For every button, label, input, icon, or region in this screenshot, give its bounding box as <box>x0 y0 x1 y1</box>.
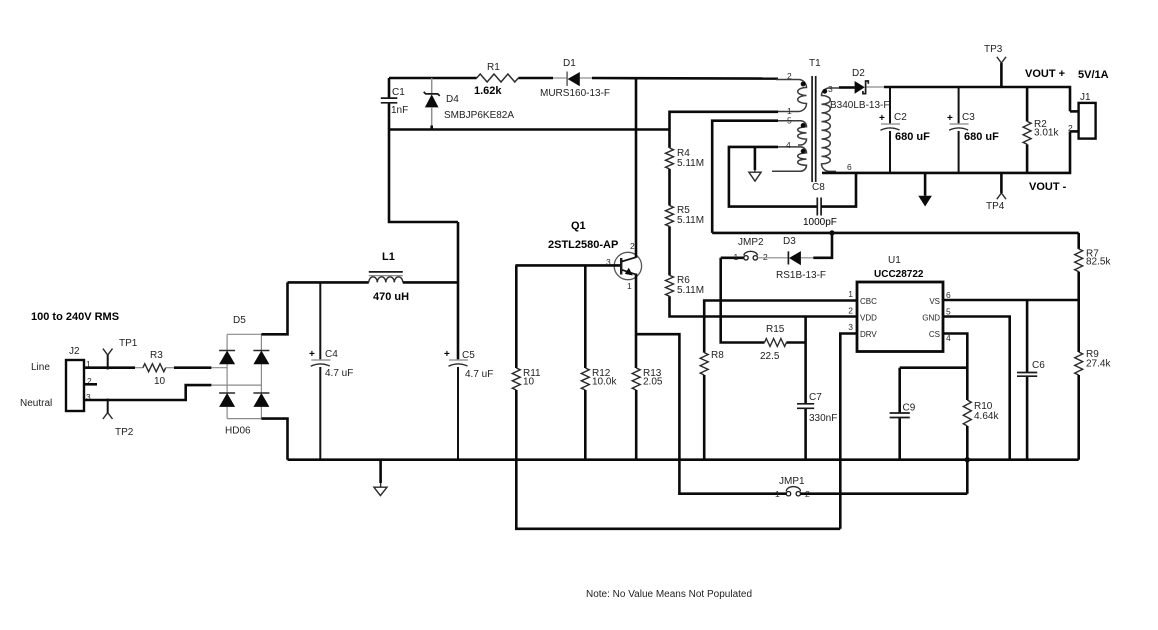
diode D2 B340LB <box>830 68 889 111</box>
svg-text:6: 6 <box>946 290 951 300</box>
svg-text:C4: C4 <box>325 349 338 360</box>
svg-text:GND: GND <box>922 314 940 323</box>
svg-text:MURS160-13-F: MURS160-13-F <box>540 88 610 99</box>
svg-text:2: 2 <box>848 306 853 316</box>
wire T1 pin4 loop to C8 <box>729 147 817 207</box>
svg-text:Note: No Value Means Not Popul: Note: No Value Means Not Populated <box>586 589 752 600</box>
svg-text:VOUT -: VOUT - <box>1029 181 1067 193</box>
test point TP4 <box>986 173 1006 212</box>
svg-text:TP4: TP4 <box>986 201 1005 212</box>
svg-text:+: + <box>879 113 885 124</box>
svg-text:J2: J2 <box>69 346 80 357</box>
svg-text:D5: D5 <box>233 315 246 326</box>
svg-text:3: 3 <box>828 84 833 94</box>
capacitor C6 <box>1017 300 1045 460</box>
diode D3 RS1B <box>758 236 827 281</box>
capacitor C2 680uF <box>879 87 930 173</box>
resistor R9 <box>1075 300 1112 460</box>
bridge rectifier D5 HD06 <box>211 315 269 437</box>
wire R3 to bridge <box>166 367 174 369</box>
svg-text:1: 1 <box>734 252 739 262</box>
wire T1 pin5 to aux rail <box>712 121 778 233</box>
wire VS pin6 to R7/R9 <box>943 299 1079 302</box>
svg-text:1000pF: 1000pF <box>803 217 837 228</box>
connector J1 <box>1068 92 1096 139</box>
second clamp rail <box>389 128 670 131</box>
test point TP1 <box>103 338 138 370</box>
svg-text:5V/1A: 5V/1A <box>1078 69 1109 81</box>
resistor R8 <box>700 350 724 375</box>
wire T1 pin1 to R4 column <box>670 112 779 148</box>
svg-text:TP3: TP3 <box>984 44 1003 55</box>
svg-text:22.5: 22.5 <box>760 351 780 362</box>
svg-text:D3: D3 <box>783 236 796 247</box>
resistor R13 <box>632 368 663 460</box>
svg-text:UCC28722: UCC28722 <box>874 269 924 280</box>
svg-text:D4: D4 <box>446 94 459 105</box>
wire VDD column / capacitor C7 <box>797 317 837 460</box>
svg-text:VOUT +: VOUT + <box>1025 68 1065 80</box>
resistor R10 <box>963 400 999 426</box>
T1 core <box>811 76 813 182</box>
svg-text:10: 10 <box>154 376 166 387</box>
resistor R4 <box>666 148 705 169</box>
svg-text:5.11M: 5.11M <box>677 215 704 226</box>
svg-text:3: 3 <box>848 322 853 332</box>
ground symbol (bridge output) <box>374 460 387 496</box>
svg-text:CS: CS <box>929 330 940 339</box>
svg-text:C8: C8 <box>812 182 825 193</box>
svg-text:82.5k: 82.5k <box>1086 257 1111 268</box>
svg-text:1: 1 <box>848 289 853 299</box>
svg-text:5: 5 <box>946 307 951 317</box>
wire J2 pin1 to R3 <box>84 366 135 369</box>
T1 aux winding pins 5-4 <box>772 116 807 172</box>
svg-text:27.4k: 27.4k <box>1086 359 1111 370</box>
wire R8 to ground <box>703 375 706 460</box>
svg-text:5.11M: 5.11M <box>677 285 704 296</box>
wire R4-R5 <box>668 169 671 206</box>
aux rail to R7 <box>712 232 1078 235</box>
inductor L1 470uH <box>369 251 409 303</box>
svg-text:4.7 uF: 4.7 uF <box>465 369 493 380</box>
svg-text:J1: J1 <box>1080 92 1091 103</box>
wire J2 pin3 to bridge (neutral) <box>84 385 211 400</box>
svg-text:D1: D1 <box>563 58 576 69</box>
svg-text:C7: C7 <box>809 392 822 403</box>
top clamp rail <box>389 77 477 80</box>
wire R6 to VDD line <box>670 296 858 316</box>
wire clamp bottom to DC bus <box>389 130 458 223</box>
wire DRV pin3 down <box>840 334 857 529</box>
T1 secondary winding <box>822 84 853 172</box>
svg-text:C9: C9 <box>903 403 916 414</box>
wire bridge - output to ground rail <box>261 419 287 460</box>
svg-text:Neutral: Neutral <box>20 398 52 409</box>
resistor R11 <box>512 265 541 390</box>
svg-text:1nF: 1nF <box>391 105 408 116</box>
wire C8 to secondary return <box>821 173 856 207</box>
svg-text:3: 3 <box>606 257 611 267</box>
svg-text:TP2: TP2 <box>115 427 134 438</box>
transistor Q1 2STL2580-AP <box>515 78 641 368</box>
svg-text:5.11M: 5.11M <box>677 158 704 169</box>
output + rail <box>884 87 1070 111</box>
svg-text:1.62k: 1.62k <box>474 85 502 97</box>
junction dot R10/ground <box>965 457 970 462</box>
resistor R7 <box>1075 233 1112 300</box>
svg-text:6: 6 <box>847 162 852 172</box>
svg-text:3.01k: 3.01k <box>1034 128 1059 139</box>
svg-text:B340LB-13-F: B340LB-13-F <box>830 100 889 111</box>
wire R10 to JMP1 <box>966 426 969 494</box>
zener diode D4 <box>424 78 515 130</box>
svg-text:C2: C2 <box>894 112 907 123</box>
svg-text:JMP1: JMP1 <box>779 476 805 487</box>
svg-text:5: 5 <box>787 116 792 126</box>
capacitor C1 <box>381 78 408 130</box>
wire emitter node to JMP1 <box>636 334 786 494</box>
svg-text:680 uF: 680 uF <box>964 131 999 143</box>
svg-text:R1: R1 <box>487 62 500 73</box>
capacitor C8 1000pF <box>803 182 837 228</box>
svg-text:2: 2 <box>630 241 635 251</box>
svg-text:2: 2 <box>787 71 792 81</box>
capacitor C5 <box>444 222 493 460</box>
resistor R12 <box>581 265 617 459</box>
svg-text:R15: R15 <box>766 324 785 335</box>
diode D1 MURS160 <box>540 58 610 99</box>
wire R5-R6 <box>668 226 671 275</box>
svg-text:C3: C3 <box>962 112 975 123</box>
output - rail <box>822 131 1070 173</box>
svg-text:10.0k: 10.0k <box>592 377 617 388</box>
svg-text:330nF: 330nF <box>809 413 837 424</box>
svg-text:1: 1 <box>627 281 632 291</box>
svg-text:CBC: CBC <box>860 297 877 306</box>
svg-text:R8: R8 <box>711 350 724 361</box>
resistor R5 <box>666 205 705 226</box>
svg-text:T1: T1 <box>809 58 821 69</box>
svg-text:2: 2 <box>763 252 768 262</box>
wire CS pin4 node <box>943 334 967 401</box>
svg-text:DRV: DRV <box>860 330 877 339</box>
svg-text:470 uH: 470 uH <box>373 291 409 303</box>
svg-text:C6: C6 <box>1032 360 1045 371</box>
resistor R6 <box>666 275 705 296</box>
svg-text:C5: C5 <box>462 350 475 361</box>
svg-text:4: 4 <box>786 140 791 150</box>
jumper JMP1 <box>775 476 810 499</box>
jumper JMP2 <box>721 237 768 262</box>
resistor R3 <box>143 350 166 387</box>
svg-text:RS1B-13-F: RS1B-13-F <box>776 270 826 281</box>
svg-text:C1: C1 <box>392 87 405 98</box>
wire CBC pin1 to R8 <box>704 301 857 353</box>
wire R11 to DRV net <box>516 390 840 529</box>
svg-text:4.64k: 4.64k <box>974 411 999 422</box>
ground symbol (aux winding) <box>749 147 761 181</box>
resistor R1 <box>474 62 518 97</box>
capacitor C3 680uF <box>947 87 999 173</box>
svg-text:SMBJP6KE82A: SMBJP6KE82A <box>444 110 514 121</box>
resistor R15 <box>760 324 786 362</box>
svg-text:Line: Line <box>31 362 50 373</box>
capacitor C9 <box>890 368 916 460</box>
svg-text:4.7 uF: 4.7 uF <box>325 368 353 379</box>
svg-text:VDD: VDD <box>860 314 877 323</box>
svg-text:680 uF: 680 uF <box>895 131 930 143</box>
wire D3 to aux rail <box>813 233 832 258</box>
svg-text:VS: VS <box>929 297 940 306</box>
test point TP3 <box>984 44 1006 87</box>
svg-text:2.05: 2.05 <box>643 377 663 388</box>
connector J2 <box>66 346 97 411</box>
test point TP2 <box>103 399 134 439</box>
svg-text:100 to 240V RMS: 100 to 240V RMS <box>31 311 119 323</box>
svg-text:Q1: Q1 <box>571 220 586 232</box>
wire R15 to VDD column <box>786 341 805 344</box>
svg-text:JMP2: JMP2 <box>738 237 764 248</box>
wire JMP2 to R15 <box>721 258 765 343</box>
wire bridge + output to L1 rail <box>261 282 287 334</box>
T1 primary winding pins 2-1 <box>776 71 807 116</box>
svg-text:D2: D2 <box>852 68 865 79</box>
capacitor C4 <box>309 282 353 459</box>
svg-text:1: 1 <box>787 106 792 116</box>
svg-text:TP1: TP1 <box>119 338 138 349</box>
ground rail (primary) <box>288 458 1079 461</box>
svg-text:R3: R3 <box>150 350 163 361</box>
svg-text:+: + <box>444 349 450 360</box>
svg-text:L1: L1 <box>382 251 395 263</box>
svg-text:+: + <box>309 349 315 360</box>
svg-text:1: 1 <box>775 489 780 499</box>
wire JMP1 pin2 to R10 column <box>801 492 968 495</box>
wire GND pin5 down <box>943 317 1010 460</box>
wire DC bus rail through L1 <box>288 281 369 284</box>
svg-text:2: 2 <box>1068 123 1073 133</box>
svg-text:10: 10 <box>523 377 535 388</box>
svg-text:+: + <box>947 113 953 124</box>
svg-text:2STL2580-AP: 2STL2580-AP <box>548 239 618 251</box>
resistor R2 <box>1023 87 1059 173</box>
svg-text:U1: U1 <box>888 255 901 266</box>
power ground arrow (secondary) <box>918 173 932 207</box>
op-amp U1 UCC28722 <box>848 255 951 352</box>
svg-text:HD06: HD06 <box>225 426 251 437</box>
